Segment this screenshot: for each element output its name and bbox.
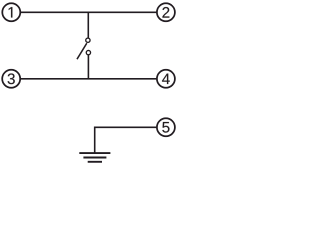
pin 5 circle <box>157 118 175 136</box>
pin 3 circle <box>2 70 20 88</box>
pin 1 label <box>9 7 13 17</box>
wire row 2 (pin3 to pin4) <box>21 78 157 80</box>
pin 1 circle <box>2 3 20 21</box>
pin 5 label <box>162 122 169 133</box>
ground bar 3 <box>88 161 102 163</box>
ground bar 1 <box>79 152 110 154</box>
pin 4 label <box>162 74 170 84</box>
pin 2 label <box>162 7 169 18</box>
switch lever <box>77 43 87 59</box>
switch contact bottom <box>86 50 90 54</box>
pin 3 label <box>8 73 15 84</box>
wire row 1 (pin1 to pin2) <box>20 11 156 13</box>
wire switch lower segment <box>87 55 89 79</box>
wire pin5 to ground (horizontal + corner + stem) <box>95 127 157 152</box>
switch contact top <box>86 38 90 42</box>
pin 4 circle <box>157 70 175 88</box>
pin 2 circle <box>157 3 175 21</box>
wire switch upper segment <box>87 12 89 38</box>
ground bar 2 <box>83 157 106 159</box>
